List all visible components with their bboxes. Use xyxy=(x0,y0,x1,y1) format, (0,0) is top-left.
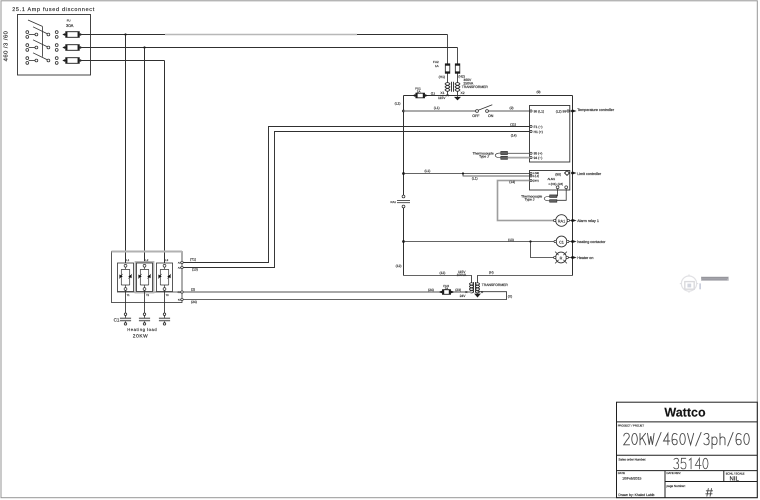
svg-text:T2: T2 xyxy=(146,294,150,297)
svg-text:NIL: NIL xyxy=(730,476,740,483)
svg-text:PROJECT / PROJET: PROJECT / PROJET xyxy=(618,423,645,427)
svg-text:X1: X1 xyxy=(440,91,444,95)
svg-text:(H): (H) xyxy=(489,271,494,275)
svg-text:(L2) 99: (L2) 99 xyxy=(556,109,567,113)
svg-text:(2): (2) xyxy=(191,287,195,291)
svg-text:(L1): (L1) xyxy=(425,169,431,173)
svg-text:25.1 Amp fused disconnect: 25.1 Amp fused disconnect xyxy=(12,7,95,13)
svg-text:Limit controller: Limit controller xyxy=(577,172,602,176)
svg-text:30A: 30A xyxy=(66,23,74,28)
svg-text:(H1): (H1) xyxy=(439,75,445,79)
svg-text:Heater on: Heater on xyxy=(577,256,593,260)
svg-text:Drawn by: Khaled Labib: Drawn by: Khaled Labib xyxy=(618,493,654,497)
svg-text:1A: 1A xyxy=(435,64,439,68)
svg-text:C1: C1 xyxy=(559,240,564,244)
svg-text:TRANSFORMER: TRANSFORMER xyxy=(462,85,489,89)
svg-text:94 (−): 94 (−) xyxy=(534,156,543,160)
svg-text:(L1): (L1) xyxy=(434,106,440,110)
svg-text:heating contactor: heating contactor xyxy=(577,240,606,244)
svg-text:(2): (2) xyxy=(510,106,514,110)
svg-text:R: R xyxy=(560,256,563,260)
svg-text:2A: 2A xyxy=(445,287,449,291)
svg-text:(13): (13) xyxy=(192,268,198,272)
svg-text:24V: 24V xyxy=(460,294,467,298)
svg-text:DATE: DATE xyxy=(618,471,625,475)
svg-text:10/Feb/2015: 10/Feb/2015 xyxy=(622,476,641,480)
svg-text:(98): (98) xyxy=(555,173,561,177)
svg-text:DATE REV:: DATE REV: xyxy=(667,471,682,475)
svg-text:(11): (11) xyxy=(510,123,516,127)
svg-text:C1: C1 xyxy=(114,317,120,322)
svg-text:(24V): (24V) xyxy=(533,180,539,183)
svg-text:2A: 2A xyxy=(417,90,421,94)
svg-text:L1: L1 xyxy=(126,259,129,262)
svg-text:Wattco: Wattco xyxy=(664,405,706,419)
svg-text:(L1): (L1) xyxy=(472,176,478,180)
svg-text:(T1): (T1) xyxy=(190,257,196,261)
svg-text:Heating load: Heating load xyxy=(127,327,157,332)
svg-text:ON: ON xyxy=(488,114,494,118)
svg-text:OFF: OFF xyxy=(472,114,480,118)
svg-text:L3: L3 xyxy=(165,259,168,262)
svg-text:page Number:: page Number: xyxy=(667,484,686,488)
svg-text:(14): (14) xyxy=(511,134,517,138)
svg-text:(24): (24) xyxy=(428,288,434,292)
svg-text:+ (H1)−(24): + (H1)−(24) xyxy=(548,182,563,186)
svg-text:2 (L2): 2 (L2) xyxy=(533,175,540,178)
svg-text:20KW: 20KW xyxy=(133,333,148,339)
svg-text:(13): (13) xyxy=(508,238,514,242)
svg-text:98 (L1): 98 (L1) xyxy=(534,109,544,113)
svg-text:T1: T1 xyxy=(127,294,131,297)
svg-text:460 /3 /60: 460 /3 /60 xyxy=(2,31,9,62)
svg-text:(12): (12) xyxy=(396,264,402,268)
svg-text:T3: T3 xyxy=(166,294,170,297)
svg-text:Sales order Number:: Sales order Number: xyxy=(618,458,646,462)
svg-text:Type J: Type J xyxy=(479,155,489,159)
svg-text:(14): (14) xyxy=(509,180,515,184)
svg-text:F1 (−): F1 (−) xyxy=(534,125,543,129)
svg-text:(L1): (L1) xyxy=(395,101,401,105)
svg-text:RA1: RA1 xyxy=(391,200,397,204)
svg-text:RA1: RA1 xyxy=(558,219,565,223)
svg-text:115V: 115V xyxy=(438,96,446,100)
svg-text:(23): (23) xyxy=(455,288,461,292)
svg-text:Alarm relay 1: Alarm relay 1 xyxy=(577,219,599,223)
svg-text:ALM1: ALM1 xyxy=(548,177,556,181)
svg-text:Type J: Type J xyxy=(525,198,535,202)
svg-text:(1): (1) xyxy=(431,91,435,95)
svg-text:(X): (X) xyxy=(508,294,512,298)
svg-text:FU: FU xyxy=(67,19,71,22)
svg-text:100VA: 100VA xyxy=(457,273,467,277)
svg-text:H1 (+): H1 (+) xyxy=(534,130,543,134)
svg-text:(24): (24) xyxy=(191,300,197,304)
svg-text:(9): (9) xyxy=(537,90,541,94)
svg-text:ECHL / SCALE: ECHL / SCALE xyxy=(726,472,745,476)
svg-text:(12): (12) xyxy=(440,271,446,275)
svg-text:X2: X2 xyxy=(461,91,465,95)
svg-text:TRANSFORMER: TRANSFORMER xyxy=(482,283,509,287)
svg-text:Temperature controller: Temperature controller xyxy=(577,108,615,112)
